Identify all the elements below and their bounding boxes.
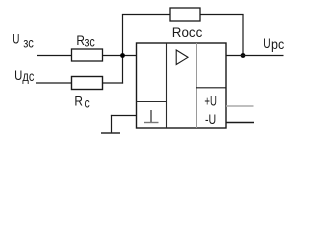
junction dot at output	[241, 53, 246, 58]
wire -U supply	[226, 122, 254, 124]
svg-text:рс: рс	[271, 37, 284, 52]
svg-text:с: с	[85, 96, 90, 111]
op-amp divider 1	[166, 43, 168, 128]
svg-text:U: U	[263, 35, 270, 51]
node Uzs input wire	[37, 55, 72, 57]
svg-text:U: U	[12, 31, 19, 47]
svg-text:R: R	[74, 92, 83, 108]
label Upc	[263, 35, 284, 52]
svg-text:U: U	[14, 67, 22, 83]
label Udc	[14, 67, 34, 84]
wire to external ground horizontal	[111, 115, 137, 117]
svg-text:-U: -U	[205, 111, 216, 127]
ground symbol	[101, 132, 120, 134]
wire to external ground vertical	[111, 115, 113, 133]
op-amp left column divider	[137, 101, 167, 103]
op-amp divider 2	[196, 43, 198, 128]
wire output	[226, 55, 284, 57]
label Rzs	[76, 32, 94, 50]
junction dot at summing node	[120, 53, 125, 58]
op-amp internal ground stem	[150, 110, 152, 123]
svg-text:+U: +U	[204, 92, 217, 108]
wire summing node vertical	[122, 15, 124, 84]
svg-text:дс: дс	[22, 69, 34, 84]
label +U	[204, 92, 217, 108]
wire feedback right	[200, 14, 244, 16]
wire Rzs to summing node	[103, 55, 137, 57]
resistor Rzs	[72, 49, 103, 61]
wire +U supply	[226, 105, 254, 107]
svg-text:зс: зс	[85, 35, 95, 50]
wire feedback right vertical	[242, 15, 244, 56]
resistor Rocc	[170, 8, 200, 21]
op-amp internal ground bar	[144, 122, 159, 124]
resistor Rc	[72, 77, 103, 90]
node Udc input wire	[36, 82, 72, 84]
label Rc	[74, 92, 89, 110]
wire feedback left	[122, 14, 170, 16]
svg-text:зс: зс	[23, 36, 34, 51]
label -U	[205, 111, 216, 127]
label Uzs	[12, 31, 34, 51]
wire Rc to summing node	[103, 82, 124, 84]
op-amp triangle	[176, 50, 188, 65]
svg-text:Rосс: Rосс	[172, 24, 203, 40]
op-amp right column divider	[196, 87, 226, 89]
op-amp U1 box	[137, 43, 227, 128]
